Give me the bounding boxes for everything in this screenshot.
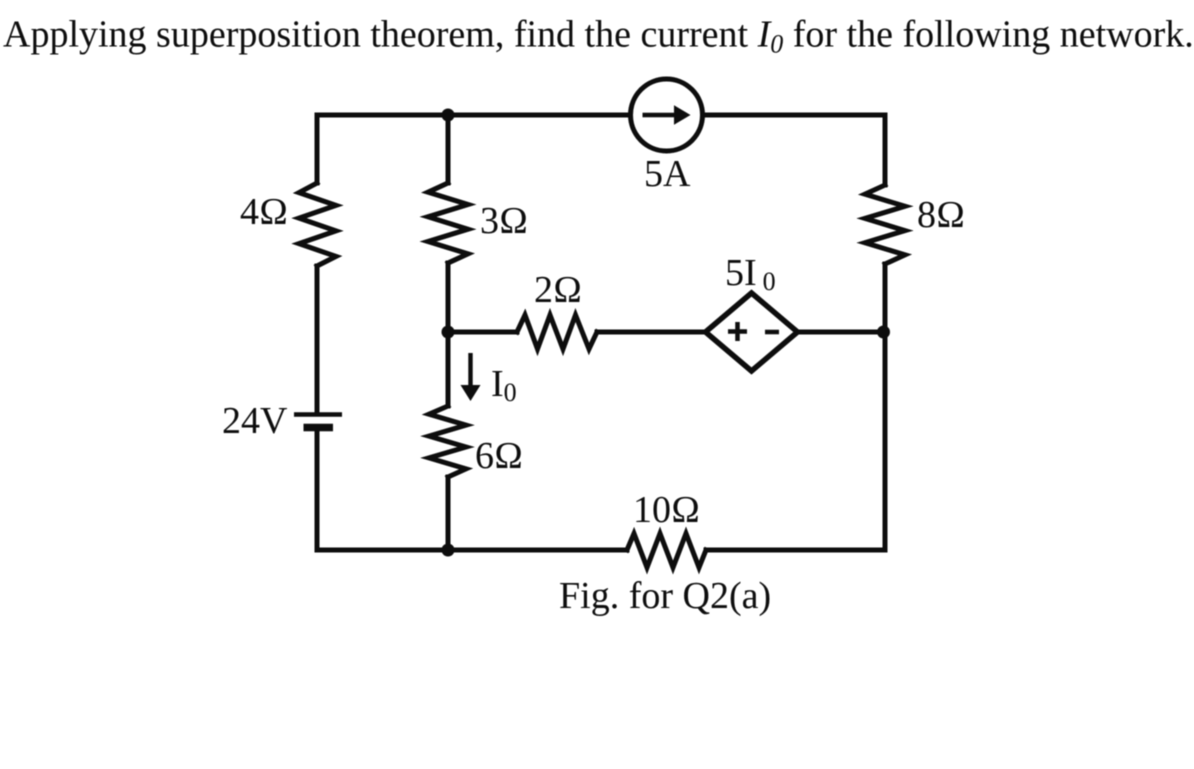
svg-text:24V: 24V [222,400,288,442]
node junction right [877,326,890,339]
wire second branch lower (6ohm to bottom) [446,477,451,550]
svg-text:Fig. for Q2(a): Fig. for Q2(a) [559,575,771,617]
node junction bottom [442,544,455,557]
wire second branch (3ohm to mid node) [446,263,451,332]
wire bottom left segment [317,548,627,553]
dependent source E1 5Io diamond [706,293,798,371]
wire right branch upper [883,115,888,185]
svg-text:4Ω: 4Ω [240,191,288,233]
battery V1 24V long plate [294,412,342,417]
svg-text:10Ω: 10Ω [633,489,700,531]
wire middle right (diamond to right branch) [797,330,885,335]
wire top left segment [317,113,630,118]
svg-text:5A: 5A [644,153,691,195]
svg-text:3Ω: 3Ω [480,200,528,242]
wire middle (2ohm to diamond) [597,330,706,335]
wire left branch middle (4ohm to battery) [315,266,320,413]
resistor R 3ohm zigzag [428,183,468,263]
resistor R 10ohm zigzag [627,534,706,568]
svg-text:2Ω: 2Ω [534,269,582,311]
current source I1 arrow [643,105,691,125]
battery V1 24V short plate [304,424,334,432]
svg-text:Applying superposition theorem: Applying superposition theorem, find the… [3,14,1194,59]
dependent source minus sign [765,330,779,335]
resistor R 8ohm zigzag [865,185,905,264]
dependent source plus sign [728,322,747,341]
wire middle left (node to 2ohm) [448,330,517,335]
wire left branch lower (battery to bottom) [315,430,320,550]
node junction top [442,109,455,122]
resistor R 6ohm zigzag [429,406,466,477]
svg-text:I0: I0 [491,363,517,407]
wire second branch (mid node to 6ohm) [446,332,451,406]
current Io arrow [461,353,481,401]
wire second branch upper [446,115,451,183]
wire bottom right segment [706,548,885,553]
wire left branch upper [315,115,320,183]
node junction middle [442,326,455,339]
wire right branch lower [883,264,888,550]
wire top right segment [703,113,885,118]
svg-text:5I0: 5I0 [725,252,776,296]
svg-text:8Ω: 8Ω [917,194,965,236]
current source I1 5A circle [631,79,703,151]
resistor R 2ohm zigzag [517,315,597,349]
resistor R 4ohm zigzag [299,183,336,266]
svg-text:6Ω: 6Ω [475,435,523,477]
